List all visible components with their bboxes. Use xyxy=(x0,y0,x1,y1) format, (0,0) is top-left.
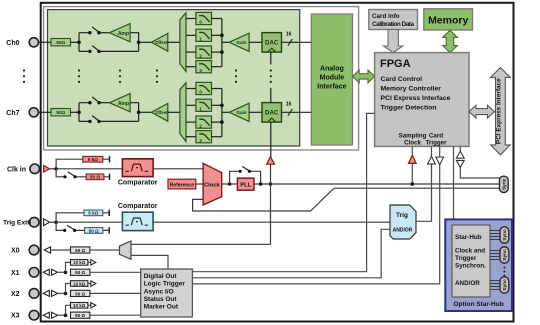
connector sync star-hub 0 xyxy=(500,227,509,243)
switch amp path Ch0 xyxy=(88,27,101,35)
wire demux to filter 2 Ch7 xyxy=(186,121,196,123)
wire filter 1 to join Ch0 xyxy=(212,34,222,36)
block Star-Hub inner xyxy=(452,225,490,297)
wire clkin to comparator xyxy=(56,168,122,170)
wire Ch7 connector to 50R xyxy=(38,111,51,113)
svg-text:Sampling: Sampling xyxy=(399,132,427,139)
resistor 5k clkin xyxy=(83,156,103,162)
arrow card trigger in up (open) xyxy=(428,156,436,164)
arrow FPGA to PCIe bar double xyxy=(469,105,495,118)
filter 3 Ch0 xyxy=(196,61,212,73)
wire 50R to junction Ch0 xyxy=(71,41,80,43)
svg-text:AND/OR: AND/OR xyxy=(393,228,413,234)
wire reference to clock mux xyxy=(196,183,203,185)
svg-text:Option Star-Hub: Option Star-Hub xyxy=(453,301,503,308)
block Card Info Calibration Data xyxy=(369,10,418,30)
svg-text:X3: X3 xyxy=(11,313,20,320)
wire pullup branch X3 xyxy=(66,305,91,315)
block Memory xyxy=(424,9,473,30)
wire demux to filter 1 Ch0 xyxy=(186,34,196,36)
wire filter 2 to join Ch0 xyxy=(212,51,222,53)
bus width slash 16 Ch7 xyxy=(286,102,293,116)
svg-text:Module: Module xyxy=(320,75,345,82)
svg-text:Sync: Sync xyxy=(502,229,508,241)
svg-text:Marker Out: Marker Out xyxy=(144,304,179,311)
resistor 10k X1 xyxy=(71,260,88,266)
wire 50R to junction Ch7 xyxy=(71,111,80,113)
svg-text:Card: Card xyxy=(429,132,443,139)
svg-text:50 Ω: 50 Ω xyxy=(75,248,85,253)
wire amp to right node Ch7 xyxy=(99,103,139,122)
wire FPGA card trigger in stub xyxy=(431,146,433,156)
switch amp path Ch7 xyxy=(88,97,101,105)
svg-text:5 kΩ: 5 kΩ xyxy=(88,157,98,162)
resistor 50R X2 xyxy=(71,290,90,296)
wire switch to amp Ch7 xyxy=(99,102,109,104)
arrow Memory to FPGA double xyxy=(443,30,458,52)
node filter join 2 Ch0 xyxy=(220,50,224,54)
wire X1 to node xyxy=(58,271,66,273)
terminator bar trig 50R xyxy=(108,227,110,233)
svg-text:5 kΩ: 5 kΩ xyxy=(88,211,98,216)
filter 3 Ch7 xyxy=(196,131,212,143)
svg-text:Memory: Memory xyxy=(428,14,468,26)
switch trig termination xyxy=(63,225,76,232)
svg-text:50Ω: 50Ω xyxy=(56,110,65,115)
svg-text:50 Ω: 50 Ω xyxy=(89,228,99,233)
node left junction Ch0 xyxy=(77,41,81,45)
node filter join 2 Ch7 xyxy=(220,120,224,124)
resistor 50R Ch7 xyxy=(51,109,71,116)
wire trig to comparator xyxy=(56,221,122,223)
wires star-hub to sync 1 xyxy=(490,251,500,260)
svg-text:Ch0: Ch0 xyxy=(6,40,19,47)
wire clock vertical to module and X0 xyxy=(270,164,272,245)
svg-text:Card Control: Card Control xyxy=(381,76,423,83)
wire demux to filter 0 Ch7 xyxy=(186,88,196,90)
wire switch to amp Ch0 xyxy=(99,32,109,34)
wire filter 1 to join Ch7 xyxy=(212,104,222,106)
block FPGA xyxy=(375,53,469,147)
svg-text:Trigger Detection: Trigger Detection xyxy=(381,105,437,112)
svg-text:Logic Trigger: Logic Trigger xyxy=(144,281,186,288)
wire comparator trig to Trig block xyxy=(153,221,390,223)
comparator trig (blue) xyxy=(122,212,153,230)
svg-text:Analog: Analog xyxy=(320,66,344,73)
block PLL xyxy=(237,178,254,190)
output arrow X0 xyxy=(44,247,50,253)
svg-text:Clock: Clock xyxy=(204,183,221,189)
svg-text:Clock and: Clock and xyxy=(455,248,485,255)
svg-text:PCI Express Interface: PCI Express Interface xyxy=(495,78,502,144)
node sampling clock on clock line xyxy=(411,182,415,186)
amplifier Offset Ch7 xyxy=(151,103,168,121)
switch clkin termination xyxy=(63,172,76,179)
filter 2 Ch7 xyxy=(196,116,212,128)
svg-text:Offset: Offset xyxy=(155,110,168,115)
terminator bar clkin 50R xyxy=(109,174,111,180)
wire DAC out 16bit Ch0 xyxy=(282,41,312,43)
connector Trig Ext0 xyxy=(29,217,39,227)
svg-text:X0: X0 xyxy=(11,248,20,255)
svg-text:Star-Hub: Star-Hub xyxy=(455,234,482,241)
wire clkin to node xyxy=(50,168,57,170)
wire DAC clock column xyxy=(270,52,272,157)
wire comparator to clock mux xyxy=(153,168,203,170)
arrow card info to FPGA xyxy=(384,30,403,53)
node filter join 1 Ch7 xyxy=(220,104,224,108)
wire digital out to FPGA xyxy=(192,113,374,271)
wire node to offset Ch7 xyxy=(139,111,152,113)
node filter join 1 Ch0 xyxy=(220,34,224,38)
wire Ch0 connector to 50R xyxy=(38,41,51,43)
analog channels green box xyxy=(48,10,300,146)
resistor 50R trig xyxy=(85,228,103,234)
connector sync clock/trigger xyxy=(499,176,508,192)
wire clock line to sync xyxy=(271,183,500,185)
mux X0 trapezoid xyxy=(120,241,132,259)
wire digital out to Trig block xyxy=(192,229,390,277)
wire digital out to card trigger xyxy=(192,165,439,284)
wire FPGA sampling clock xyxy=(411,146,413,184)
wire gain to DAC Ch7 xyxy=(249,111,262,113)
wire filter join vertical Ch0 xyxy=(221,19,223,67)
svg-text:Amp: Amp xyxy=(118,31,129,37)
wire X2 to digital out box xyxy=(90,292,141,294)
svg-text:DAC: DAC xyxy=(265,40,279,47)
wire gain to DAC Ch0 xyxy=(249,41,262,43)
resistor 50R Ch0 xyxy=(51,39,71,46)
node clock distribution xyxy=(269,182,273,186)
svg-text:Status Out: Status Out xyxy=(144,296,178,303)
wire clkin 5k branch xyxy=(56,159,109,169)
svg-text:Comparator: Comparator xyxy=(118,203,158,210)
wire FPGA trigger sync stub xyxy=(460,146,499,178)
arrow pullup X3 xyxy=(91,303,96,308)
wire demux to filter 3 Ch0 xyxy=(186,66,196,68)
amplifier Gain Ch0 xyxy=(229,33,249,51)
svg-text:Calibration Data: Calibration Data xyxy=(372,21,414,28)
svg-text:10 kΩ: 10 kΩ xyxy=(73,281,86,286)
node clock out xyxy=(228,182,232,186)
svg-text:16: 16 xyxy=(286,32,292,38)
svg-text:Sync: Sync xyxy=(502,178,508,190)
resistor 10k X2 xyxy=(71,281,88,287)
node clkin xyxy=(54,167,58,171)
ellipsis star-hub syncs xyxy=(503,267,505,277)
svg-text:Async I/O: Async I/O xyxy=(144,288,174,295)
input arrow Trig Ext0 xyxy=(44,219,50,226)
node right junction Ch0 xyxy=(137,41,141,45)
wire X2 to node xyxy=(58,292,66,294)
svg-text:Interface: Interface xyxy=(317,84,346,91)
node left junction Ch7 xyxy=(77,111,81,115)
filter 0 Ch7 xyxy=(196,82,212,94)
input arrow Clk in xyxy=(44,165,50,172)
wire trig 50R branch xyxy=(56,222,109,230)
arrow sampling clock up (red) xyxy=(408,155,416,163)
block Analog Module Interface xyxy=(311,14,352,145)
svg-text:Trig Ext0: Trig Ext0 xyxy=(3,220,31,227)
block Reference xyxy=(168,179,196,189)
wire demux to filter 1 Ch7 xyxy=(186,104,196,106)
terminator bar clkin 5k xyxy=(109,156,111,162)
svg-text:X2: X2 xyxy=(11,291,20,298)
svg-text:50Ω: 50Ω xyxy=(56,40,65,45)
wire filter 0 to join Ch0 xyxy=(212,18,222,20)
block Option Star-Hub xyxy=(445,219,512,311)
svg-text:Trig: Trig xyxy=(396,212,408,219)
node X2 xyxy=(64,292,68,296)
wires star-hub to sync 0 xyxy=(490,231,500,240)
resistor 50R clkin xyxy=(86,174,104,180)
connector X3 xyxy=(29,310,39,320)
filter 1 Ch7 xyxy=(196,99,212,111)
wire branch verticals Ch7 xyxy=(79,103,90,122)
svg-text:Comparator: Comparator xyxy=(118,179,158,186)
wire clock mux out xyxy=(222,183,238,185)
arrow clock into module xyxy=(267,157,275,165)
wire offset to filter demux Ch7 xyxy=(168,111,180,113)
analog module container xyxy=(44,7,359,150)
wire X0 mux clock input xyxy=(131,243,271,245)
connector X0 xyxy=(29,245,39,255)
wire X3 to node xyxy=(58,314,66,316)
svg-text:Amp: Amp xyxy=(118,101,129,107)
svg-text:Reference: Reference xyxy=(170,182,194,188)
bus width slash 16 Ch0 xyxy=(286,32,293,46)
svg-text:Card Info: Card Info xyxy=(372,13,400,20)
DAC Ch0 xyxy=(262,33,282,53)
filter 0 Ch0 xyxy=(196,12,212,24)
amplifier Amp Ch0 xyxy=(109,24,130,42)
svg-text:Gain: Gain xyxy=(236,40,246,45)
resistor 50R X1 xyxy=(71,269,90,275)
PCI Express Interface bus bar xyxy=(491,68,511,155)
connector Clk in xyxy=(30,164,40,174)
svg-text:50 Ω: 50 Ω xyxy=(75,270,85,275)
wire clkin 50R branch xyxy=(56,169,109,177)
wire demux to filter 2 Ch0 xyxy=(186,51,196,53)
wire join to gain Ch7 xyxy=(222,111,229,113)
svg-text:Memory Controller: Memory Controller xyxy=(381,86,442,93)
wire demux to filter 0 Ch0 xyxy=(186,18,196,20)
terminator bar trig 5k xyxy=(108,210,110,216)
arrow pullup X2 xyxy=(91,281,96,286)
connector Ch7 xyxy=(29,108,38,117)
svg-text:10 kΩ: 10 kΩ xyxy=(73,303,86,308)
resistor 50R X3 xyxy=(71,312,90,318)
svg-text:Sync: Sync xyxy=(502,249,508,261)
wire filter 3 to join Ch7 xyxy=(212,136,222,138)
connector sync star-hub 1 xyxy=(500,247,509,263)
svg-text:Clock: Clock xyxy=(404,139,421,146)
wire amp to right node Ch0 xyxy=(99,33,139,52)
svg-text:PLL: PLL xyxy=(240,183,251,189)
wire X0 mux digital input xyxy=(131,255,168,269)
comparator clock (red) xyxy=(122,159,153,177)
ellipsis dots between channels xyxy=(23,69,272,83)
wire trig 5k branch xyxy=(56,213,109,222)
wire filter 2 to join Ch7 xyxy=(212,121,222,123)
wire pullup branch X2 xyxy=(66,284,91,294)
wire PLL bypass xyxy=(230,171,261,184)
arrow trigger sync up (open) xyxy=(456,151,464,158)
bidirectional arrows X1 xyxy=(43,269,57,275)
DAC Ch7 xyxy=(262,103,282,123)
wire X0 to 50R xyxy=(51,249,71,251)
node X3 xyxy=(64,313,68,317)
amplifier Gain Ch7 xyxy=(229,103,249,121)
svg-text:Trigger: Trigger xyxy=(455,255,477,262)
wire PLL out xyxy=(254,183,271,185)
svg-text:X1: X1 xyxy=(11,270,20,277)
wire X3 to digital out box xyxy=(90,314,141,316)
arrow card trigger out down (open) xyxy=(436,157,444,165)
svg-text:Ch7: Ch7 xyxy=(6,110,19,117)
svg-text:PCI Express Interface: PCI Express Interface xyxy=(381,95,451,102)
svg-text:50 Ω: 50 Ω xyxy=(90,175,100,180)
svg-text:Gain: Gain xyxy=(236,110,246,115)
wire 50R X0 to mux xyxy=(90,249,120,251)
svg-text:AND/OR: AND/OR xyxy=(455,280,480,287)
svg-text:50 Ω: 50 Ω xyxy=(75,291,85,296)
arrow trigger sync down (open) xyxy=(456,160,464,167)
svg-text:Synchron.: Synchron. xyxy=(455,263,486,270)
wire filter join vertical Ch7 xyxy=(221,89,223,137)
switch bypass path Ch0 xyxy=(88,46,101,54)
connector X2 xyxy=(29,289,39,299)
wire DAC out 16bit Ch7 xyxy=(282,111,312,113)
arrow pullup X1 xyxy=(91,260,96,265)
connector Ch0 xyxy=(29,38,38,47)
svg-text:Trigger: Trigger xyxy=(426,139,448,146)
wire join to gain Ch0 xyxy=(222,41,229,43)
resistor 5k trig xyxy=(84,210,103,216)
arrow AMI to FPGA double xyxy=(353,70,375,83)
svg-text:Digital Out: Digital Out xyxy=(144,273,178,280)
wire branch verticals Ch0 xyxy=(79,33,90,52)
svg-text:16: 16 xyxy=(286,102,292,108)
resistor 10k X3 xyxy=(71,303,88,309)
wire FPGA card trigger out stub xyxy=(439,146,441,157)
filter 2 Ch0 xyxy=(196,46,212,58)
amplifier Amp Ch7 xyxy=(109,94,130,112)
wire pullup branch X1 xyxy=(66,262,91,272)
node PLL out xyxy=(259,182,263,186)
wire filter 3 to join Ch0 xyxy=(212,66,222,68)
wire FPGA to star-hub xyxy=(453,146,455,219)
wire node to offset Ch0 xyxy=(139,41,152,43)
wires star-hub to sync 2 xyxy=(490,281,500,290)
svg-text:DAC: DAC xyxy=(265,110,279,117)
svg-text:Sync: Sync xyxy=(502,279,508,291)
wire trig to node xyxy=(50,221,57,223)
bidirectional arrows X3 xyxy=(43,312,57,318)
svg-text:FPGA: FPGA xyxy=(380,58,411,70)
svg-text:50 Ω: 50 Ω xyxy=(75,313,85,318)
filter 1 Ch0 xyxy=(196,29,212,41)
wire X1 to digital out box xyxy=(90,271,141,273)
wire Trig block to FPGA card trigger in xyxy=(416,165,432,222)
switch PLL bypass xyxy=(239,167,251,173)
connector X1 xyxy=(29,268,39,278)
bidirectional arrows X2 xyxy=(43,290,57,296)
svg-text:Offset: Offset xyxy=(155,40,168,45)
node right junction Ch7 xyxy=(137,111,141,115)
wire offset to filter demux Ch0 xyxy=(168,41,180,43)
wire demux to filter 3 Ch7 xyxy=(186,136,196,138)
block Digital Out Logic Trigger xyxy=(141,269,193,317)
amplifier Offset Ch0 xyxy=(151,33,168,51)
switch bypass path Ch7 xyxy=(88,116,101,124)
connector sync star-hub 2 xyxy=(500,277,509,293)
resistor 50R X0 xyxy=(71,247,90,253)
wire clock mux external input xyxy=(193,188,500,211)
node X1 xyxy=(64,271,68,275)
svg-text:10 kΩ: 10 kΩ xyxy=(73,260,86,265)
filter demux trapezoid Ch7 xyxy=(180,83,186,142)
clock mux trapezoid xyxy=(203,163,222,205)
node trig xyxy=(54,220,58,224)
block Trig AND/OR xyxy=(390,205,416,239)
svg-text:Clk in: Clk in xyxy=(7,166,26,173)
filter demux trapezoid Ch0 xyxy=(180,13,186,72)
wire filter 0 to join Ch7 xyxy=(212,88,222,90)
